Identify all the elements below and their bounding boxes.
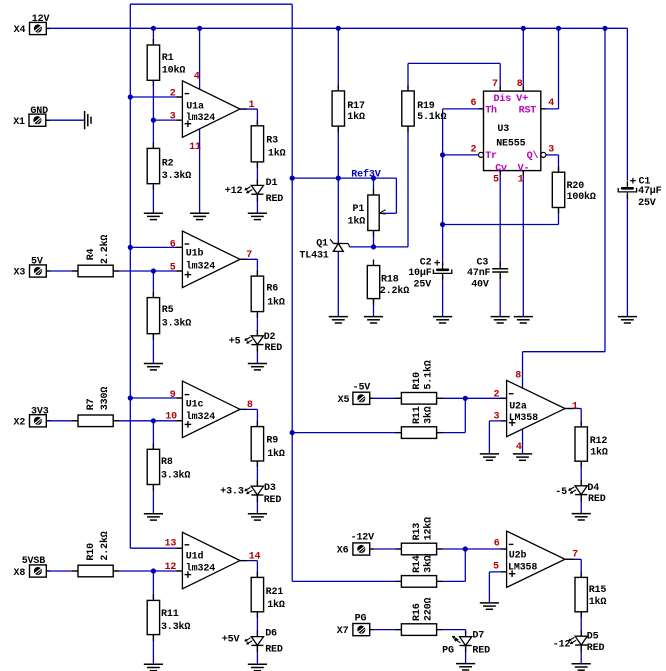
op-amp U1a bbox=[182, 81, 240, 138]
svg-text:8: 8 bbox=[515, 370, 521, 381]
svg-text:1kΩ: 1kΩ bbox=[267, 599, 285, 611]
LED D3 bbox=[256, 480, 258, 486]
svg-text:R2: R2 bbox=[162, 158, 174, 169]
svg-text:Th: Th bbox=[485, 104, 497, 116]
svg-text:R14: R14 bbox=[412, 555, 423, 573]
svg-text:X6: X6 bbox=[337, 545, 349, 556]
wire R16 to D7 bbox=[437, 629, 466, 631]
svg-text:R11: R11 bbox=[412, 406, 423, 424]
wire R8 top bbox=[152, 421, 154, 450]
wire R1 top bbox=[152, 28, 154, 45]
svg-text:100kΩ: 100kΩ bbox=[567, 191, 596, 203]
ground C3 bbox=[491, 316, 510, 318]
resistor R10 -5V bbox=[395, 397, 401, 399]
wire D1 to ground bbox=[256, 194, 258, 213]
svg-text:U2a: U2a bbox=[509, 402, 527, 413]
svg-text:2.2kΩ: 2.2kΩ bbox=[380, 285, 409, 297]
svg-text:2.2kΩ: 2.2kΩ bbox=[99, 531, 111, 560]
wire R21 to D6 bbox=[256, 612, 258, 637]
wire Ref3V right bus bbox=[291, 4, 293, 581]
wire U1a pin2 bbox=[130, 96, 182, 98]
svg-text:RED: RED bbox=[588, 494, 606, 505]
svg-text:D6: D6 bbox=[265, 628, 277, 639]
resistor R20 bbox=[558, 166, 560, 172]
svg-text:+3.3: +3.3 bbox=[220, 487, 244, 498]
svg-text:4: 4 bbox=[548, 98, 554, 109]
svg-text:X4: X4 bbox=[14, 25, 26, 36]
wire R10 to pin2 bbox=[437, 397, 507, 399]
svg-text:X1: X1 bbox=[13, 117, 25, 128]
svg-text:+12: +12 bbox=[225, 186, 243, 197]
svg-text:330Ω: 330Ω bbox=[100, 387, 111, 411]
wire wiper drop bbox=[395, 178, 397, 213]
IC U3 NE555 box bbox=[484, 91, 541, 171]
svg-text:X3: X3 bbox=[14, 268, 26, 279]
wire D2 to ground bbox=[256, 345, 258, 364]
wire Ref3V row bbox=[292, 177, 373, 179]
connector X3 bbox=[46, 270, 50, 272]
svg-text:6: 6 bbox=[471, 98, 477, 109]
wire X3 to R4 bbox=[46, 270, 78, 272]
connector X7 bbox=[370, 629, 374, 631]
pin stub 555 pin7 bbox=[499, 86, 501, 91]
svg-text:+5: +5 bbox=[229, 337, 241, 348]
svg-text:U1d: U1d bbox=[186, 550, 204, 562]
svg-text:7: 7 bbox=[246, 250, 252, 261]
ground D5 bbox=[572, 663, 591, 665]
svg-text:3kΩ: 3kΩ bbox=[423, 406, 435, 424]
svg-text:RED: RED bbox=[264, 495, 282, 506]
junction node divider2 bbox=[151, 268, 156, 273]
wire U2b pin5 stub bbox=[489, 571, 506, 573]
svg-text:R13: R13 bbox=[412, 523, 423, 541]
svg-text:47µF: 47µF bbox=[638, 186, 662, 197]
svg-text:5V: 5V bbox=[31, 256, 43, 267]
junction node Ref3V bus bbox=[290, 176, 295, 181]
wire R3 to D1 bbox=[256, 162, 258, 186]
junction node pin2 bus bbox=[128, 94, 133, 99]
svg-text:2: 2 bbox=[170, 89, 176, 100]
svg-text:5VSB: 5VSB bbox=[22, 556, 46, 567]
pin stub U2a pin3 bbox=[501, 420, 507, 422]
wire R5 top bbox=[152, 271, 154, 298]
ground D1 bbox=[248, 212, 267, 214]
op-amp U1c bbox=[182, 381, 240, 438]
wire U1c pin9 bbox=[130, 397, 182, 399]
resistor R17 bbox=[337, 85, 339, 91]
wire riser to pin6 node bbox=[464, 549, 466, 581]
resistor R13 bbox=[395, 548, 401, 550]
pin stub 555 pin5 bbox=[499, 171, 501, 176]
resistor R19 bbox=[407, 85, 409, 91]
wire P1 top bbox=[373, 178, 375, 195]
wire X7 to R16 bbox=[371, 629, 402, 631]
junction node Ref3V P1 bbox=[371, 176, 376, 181]
svg-text:+5V: +5V bbox=[222, 634, 240, 645]
svg-text:1kΩ: 1kΩ bbox=[589, 596, 607, 608]
svg-text:R10: R10 bbox=[412, 372, 423, 390]
wire Ref3V top frame bbox=[130, 3, 292, 5]
ground 555 pin1 bbox=[514, 316, 533, 318]
wire C2 to ground bbox=[442, 275, 444, 317]
svg-text:lm324: lm324 bbox=[186, 112, 215, 124]
wire R8 to ground bbox=[152, 485, 154, 514]
potentiometer P1 bbox=[373, 189, 375, 195]
svg-text:12kΩ: 12kΩ bbox=[423, 517, 435, 541]
ground X1 bbox=[84, 111, 86, 129]
ground U2a pin4 bbox=[513, 453, 532, 455]
svg-text:47nF: 47nF bbox=[467, 268, 491, 279]
wire D7 to ground bbox=[465, 645, 467, 664]
pin stub U2b out bbox=[565, 558, 574, 560]
svg-text:1kΩ: 1kΩ bbox=[267, 297, 285, 309]
wire U1a pin4 supply bbox=[199, 28, 201, 89]
wire R20 bottom bbox=[558, 208, 560, 225]
wire U1a pin11 to ground bbox=[199, 129, 201, 213]
svg-text:+: + bbox=[630, 177, 637, 189]
pin stub 555 pin1 bbox=[522, 171, 524, 176]
capacitor C2 bbox=[442, 263, 444, 270]
wire U2b pin5 to ground bbox=[488, 572, 490, 603]
svg-text:R1: R1 bbox=[162, 53, 174, 64]
svg-text:Q\: Q\ bbox=[527, 150, 539, 162]
ground R11 bbox=[144, 663, 163, 665]
wire R19 top bbox=[407, 63, 409, 91]
svg-text:3kΩ: 3kΩ bbox=[423, 555, 435, 573]
svg-text:1kΩ: 1kΩ bbox=[347, 111, 365, 123]
svg-text:U2b: U2b bbox=[509, 550, 527, 562]
svg-text:RED: RED bbox=[266, 194, 284, 205]
pin stub U1d pin12 bbox=[176, 570, 182, 572]
svg-text:NE555: NE555 bbox=[496, 139, 525, 150]
svg-text:R16: R16 bbox=[412, 603, 423, 621]
wire U1a pin3 bbox=[153, 119, 182, 121]
svg-text:X8: X8 bbox=[14, 568, 26, 579]
svg-text:R15: R15 bbox=[589, 585, 607, 596]
svg-text:X7: X7 bbox=[337, 626, 349, 637]
svg-text:13: 13 bbox=[165, 539, 177, 550]
svg-text:14: 14 bbox=[249, 551, 261, 562]
svg-text:D5: D5 bbox=[587, 632, 599, 643]
svg-text:PG: PG bbox=[355, 613, 367, 624]
wire C1 to ground bbox=[626, 195, 628, 317]
svg-text:10: 10 bbox=[165, 412, 177, 423]
resistor R5 bbox=[152, 292, 154, 298]
svg-text:4: 4 bbox=[194, 71, 200, 82]
svg-text:D7: D7 bbox=[472, 631, 484, 642]
wire Ref3V left bus bbox=[129, 4, 131, 548]
op-amp U1b bbox=[182, 231, 240, 288]
wire R10 to pin12 bbox=[113, 570, 182, 572]
pin stub 555 pin6 bbox=[479, 108, 484, 110]
wire 12V rail bbox=[46, 27, 627, 29]
wire R11 row bbox=[292, 432, 401, 434]
svg-text:25V: 25V bbox=[414, 279, 432, 290]
wire U1a out bbox=[240, 108, 257, 110]
ground C1 bbox=[618, 316, 637, 318]
svg-text:lm324: lm324 bbox=[186, 563, 215, 575]
wire out to R6 bbox=[256, 259, 258, 276]
junction node 555 pin8/12V bbox=[521, 26, 526, 31]
resistor R9 bbox=[256, 421, 258, 427]
wire X5 to R10 bbox=[371, 397, 402, 399]
wire TL431 ref row bbox=[349, 246, 408, 248]
resistor R15 bbox=[580, 571, 582, 577]
wire Dis row bbox=[408, 62, 500, 64]
wire R15 to D5 bbox=[580, 612, 582, 636]
LED D7 bbox=[465, 631, 467, 637]
svg-text:RED: RED bbox=[587, 643, 605, 654]
pin stub 555 pin4 bbox=[541, 108, 546, 110]
op-amp U2b bbox=[507, 531, 565, 587]
ground U2b pin5 bbox=[480, 602, 499, 604]
svg-text:1: 1 bbox=[572, 402, 578, 413]
svg-text:D4: D4 bbox=[587, 483, 599, 494]
svg-text:10kΩ: 10kΩ bbox=[162, 64, 186, 76]
junction node 12V right bbox=[602, 26, 607, 31]
pin stub U1a out bbox=[240, 108, 247, 110]
svg-text:5.1kΩ: 5.1kΩ bbox=[423, 360, 435, 389]
svg-text:Cv: Cv bbox=[495, 163, 507, 174]
wire 555 pin6 row bbox=[443, 108, 484, 110]
svg-text:12: 12 bbox=[165, 562, 177, 573]
resistor R21 bbox=[256, 571, 258, 577]
wire P1 bottom bbox=[373, 231, 375, 247]
svg-text:3: 3 bbox=[548, 144, 554, 155]
wire 555 pin4 RST bbox=[541, 108, 559, 110]
wire U2a pin3 stub bbox=[489, 420, 506, 422]
ground D7 bbox=[456, 663, 475, 665]
junction node R17/12V bbox=[336, 26, 341, 31]
svg-text:C3: C3 bbox=[477, 257, 489, 268]
junction node pin6 bus bbox=[128, 245, 133, 250]
junction node P1 bottom bbox=[371, 244, 376, 249]
wire Th-Tr column bbox=[442, 109, 444, 266]
pin stub U1c pin10 bbox=[176, 420, 182, 422]
wire D6 to ground bbox=[256, 645, 258, 664]
ground R8 bbox=[144, 513, 163, 515]
wire U2b out bbox=[565, 558, 581, 560]
ground D2 bbox=[248, 363, 267, 365]
junction node divider3 bbox=[151, 418, 156, 423]
svg-text:X2: X2 bbox=[14, 418, 26, 429]
wire 555 pin2 row bbox=[443, 154, 479, 156]
svg-text:TL431: TL431 bbox=[299, 251, 328, 262]
wire U1d out bbox=[240, 560, 257, 562]
svg-text:Dis: Dis bbox=[494, 93, 512, 105]
op-amp U1a inputs bbox=[185, 93, 190, 95]
pin stub U1c out bbox=[240, 408, 247, 410]
LED D5 bbox=[580, 630, 582, 636]
junction node U1a pin4/12V bbox=[197, 26, 202, 31]
wire R1-R2 mid bbox=[152, 80, 154, 148]
ground TL431 bbox=[329, 316, 348, 318]
junction node R20/Tr bbox=[440, 222, 445, 227]
resistor R1 bbox=[152, 39, 154, 45]
svg-text:220Ω: 220Ω bbox=[424, 597, 435, 621]
wire U1b pin6 bbox=[130, 246, 182, 248]
LED D6 bbox=[256, 631, 258, 637]
svg-text:3V3: 3V3 bbox=[31, 406, 49, 417]
connector X5 bbox=[370, 397, 374, 399]
svg-text:2: 2 bbox=[471, 144, 477, 155]
wire D4 to ground bbox=[580, 495, 582, 514]
ground R5 bbox=[144, 363, 163, 365]
resistor R18 bbox=[373, 260, 375, 266]
svg-text:R8: R8 bbox=[161, 457, 173, 468]
svg-text:GND: GND bbox=[30, 106, 48, 117]
op-amp U2b inputs bbox=[509, 543, 514, 545]
svg-text:R4: R4 bbox=[86, 248, 97, 260]
svg-text:lm324: lm324 bbox=[186, 260, 215, 272]
svg-text:-5: -5 bbox=[555, 487, 567, 498]
svg-text:11: 11 bbox=[189, 142, 201, 153]
wire D5 to ground bbox=[580, 645, 582, 664]
svg-text:1: 1 bbox=[518, 175, 524, 186]
svg-text:Ref3V: Ref3V bbox=[351, 168, 380, 180]
wire R11 to riser bbox=[437, 432, 466, 434]
junction node U2b pin6 bbox=[463, 546, 468, 551]
wire R18 to ground bbox=[373, 299, 375, 317]
wire 555 pin5 drop bbox=[499, 171, 501, 266]
svg-text:7: 7 bbox=[492, 79, 498, 90]
svg-text:R7: R7 bbox=[86, 398, 97, 410]
svg-text:5: 5 bbox=[170, 263, 176, 274]
op-amp U1b inputs bbox=[185, 243, 190, 245]
wire 12V to C1 drop bbox=[626, 28, 628, 181]
op-amp U1d bbox=[182, 532, 240, 589]
op-amp U2a inputs bbox=[509, 393, 514, 395]
svg-text:1kΩ: 1kΩ bbox=[267, 448, 285, 460]
pin stub U1d out bbox=[240, 560, 247, 562]
resistor R12 bbox=[580, 421, 582, 427]
svg-text:U1b: U1b bbox=[186, 248, 204, 260]
svg-text:RST: RST bbox=[519, 105, 537, 116]
ground C2 bbox=[433, 316, 452, 318]
svg-text:5: 5 bbox=[493, 562, 499, 573]
junction node divider1 bbox=[151, 118, 156, 123]
svg-text:+: + bbox=[434, 259, 441, 271]
op-amp U2a bbox=[507, 380, 565, 436]
wire R2 to ground bbox=[152, 184, 154, 214]
svg-text:5: 5 bbox=[493, 175, 499, 186]
resistor R14 bbox=[395, 580, 401, 582]
resistor R10 5VSB bbox=[72, 570, 78, 572]
wire X8 to R10 bbox=[46, 570, 78, 572]
wire 555 pin1 to ground bbox=[522, 171, 524, 317]
svg-text:PG: PG bbox=[442, 646, 454, 657]
svg-text:-12: -12 bbox=[553, 640, 571, 651]
svg-text:C2: C2 bbox=[420, 257, 432, 268]
svg-text:R18: R18 bbox=[381, 275, 399, 286]
wire R14 row bbox=[292, 580, 401, 582]
svg-text:U1a: U1a bbox=[186, 102, 204, 113]
svg-text:Q1: Q1 bbox=[316, 239, 328, 250]
ground U1a pin11 bbox=[190, 212, 209, 214]
wire C3 to ground bbox=[499, 275, 501, 317]
pin stub 555 pin8 bbox=[522, 86, 524, 91]
svg-text:V-: V- bbox=[518, 163, 530, 174]
resistor R4 bbox=[72, 270, 78, 272]
resistor R2 bbox=[152, 142, 154, 148]
junction node divider4 bbox=[151, 568, 156, 573]
svg-text:3.3kΩ: 3.3kΩ bbox=[162, 170, 191, 182]
svg-text:40V: 40V bbox=[471, 279, 489, 290]
svg-text:1kΩ: 1kΩ bbox=[590, 447, 608, 459]
svg-text:RED: RED bbox=[265, 645, 283, 656]
pin stub U2a out bbox=[565, 408, 574, 410]
svg-text:LM358: LM358 bbox=[508, 563, 537, 574]
svg-text:4: 4 bbox=[516, 442, 522, 453]
pin stub U1a pin2 bbox=[176, 96, 182, 98]
bubble 555 pin2 bbox=[479, 152, 484, 157]
resistor R6 bbox=[256, 270, 258, 276]
wire Ref3V to wiper corner bbox=[374, 177, 397, 179]
connector X1 bbox=[46, 119, 50, 121]
svg-text:RED: RED bbox=[265, 343, 283, 354]
svg-text:8: 8 bbox=[517, 79, 523, 90]
svg-text:1: 1 bbox=[249, 100, 255, 111]
pin stub U1c pin9 bbox=[176, 397, 182, 399]
junction node Tr bbox=[440, 152, 445, 157]
svg-text:R19: R19 bbox=[417, 101, 435, 112]
wire R13 to pin6 bbox=[437, 548, 507, 550]
svg-text:P1: P1 bbox=[353, 204, 365, 215]
svg-text:10µF: 10µF bbox=[408, 268, 432, 279]
svg-text:R9: R9 bbox=[266, 435, 278, 446]
svg-text:1kΩ: 1kΩ bbox=[348, 216, 366, 228]
wire U1c out bbox=[240, 408, 257, 410]
svg-text:1kΩ: 1kΩ bbox=[268, 148, 286, 160]
svg-text:X5: X5 bbox=[338, 395, 350, 406]
svg-text:3: 3 bbox=[494, 412, 500, 423]
svg-text:2.2kΩ: 2.2kΩ bbox=[99, 235, 111, 264]
ground R2 bbox=[144, 212, 163, 214]
pin stub U1a pin3 bbox=[176, 119, 182, 121]
wire R19 bottom drop bbox=[407, 126, 409, 247]
capacitor C1 bbox=[626, 181, 628, 188]
wire R17 to TL431 bbox=[337, 126, 339, 243]
svg-text:2: 2 bbox=[494, 389, 500, 400]
svg-text:R11: R11 bbox=[161, 609, 179, 620]
svg-text:3: 3 bbox=[170, 112, 176, 123]
wire U2a out bbox=[565, 408, 581, 410]
wire U1b out bbox=[240, 258, 257, 260]
junction node R11 bus bbox=[290, 430, 295, 435]
wire out to R9 bbox=[256, 409, 258, 426]
wire wiper arrow bbox=[381, 212, 397, 214]
junction node U2a pin2 bbox=[463, 396, 468, 401]
connector X2 bbox=[46, 420, 50, 422]
wire R6 to D2 bbox=[256, 312, 258, 336]
svg-text:R5: R5 bbox=[162, 305, 174, 316]
wire R11 top bbox=[152, 571, 154, 600]
wire U2a pin3 to ground bbox=[488, 421, 490, 454]
capacitor C3 bbox=[499, 262, 501, 269]
connector X4 bbox=[46, 28, 50, 30]
LED D2 bbox=[256, 330, 258, 336]
wire out to R3 bbox=[256, 109, 258, 126]
svg-text:6: 6 bbox=[494, 539, 500, 550]
svg-text:lm324: lm324 bbox=[186, 411, 215, 423]
pin stub U2a pin2 bbox=[501, 397, 507, 399]
resistor R16 bbox=[395, 629, 401, 631]
wire R12 to D4 bbox=[580, 461, 582, 486]
svg-text:R20: R20 bbox=[567, 181, 585, 192]
wire R5 to ground bbox=[152, 334, 154, 364]
ground D6 bbox=[248, 663, 267, 665]
svg-text:3.3kΩ: 3.3kΩ bbox=[162, 317, 191, 329]
